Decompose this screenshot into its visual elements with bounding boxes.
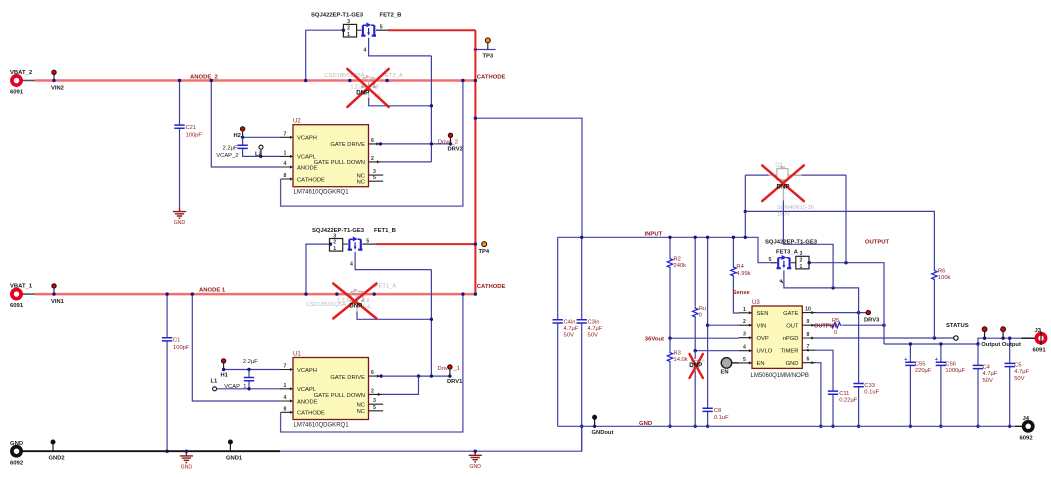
transistor FET3_A pin box [796, 256, 809, 269]
svg-text:6091: 6091 [10, 303, 24, 309]
capacitor C8 [702, 408, 712, 411]
test point DRV2 [450, 138, 452, 144]
svg-text:VIN: VIN [757, 324, 767, 330]
svg-text:5: 5 [373, 175, 376, 181]
svg-text:NC: NC [357, 173, 365, 179]
svg-text:C1: C1 [173, 338, 180, 344]
svg-text:C8: C8 [714, 408, 721, 414]
test point DRV3 [866, 310, 870, 314]
svg-text:Q1: Q1 [775, 162, 782, 168]
svg-text:6092: 6092 [1020, 436, 1034, 442]
wire VCAPH ch2 [243, 136, 280, 138]
wire GND rail left black [23, 450, 281, 452]
transistor FET3_A symbol [777, 255, 792, 268]
svg-text:ANODE 1: ANODE 1 [199, 288, 226, 294]
wire GATE PULL DOWN ch1 [382, 376, 419, 394]
wire FET3_A source to OUT [809, 263, 884, 344]
svg-text:INPUT: INPUT [645, 231, 663, 237]
svg-text:VCAPH: VCAPH [297, 135, 317, 141]
wire ANODE to pin4 U2 [211, 81, 280, 168]
svg-text:3: 3 [373, 169, 376, 175]
test point H1 [221, 359, 225, 363]
svg-text:LM74610QDGKRQ1: LM74610QDGKRQ1 [294, 190, 350, 196]
svg-text:OVP: OVP [757, 336, 769, 342]
test point L1 [213, 387, 217, 391]
svg-text:1,2,3: 1,2,3 [337, 298, 349, 304]
port J4 [1024, 422, 1033, 431]
wire UVLO [695, 350, 739, 352]
wire gates vertical ch1 [430, 270, 432, 377]
svg-text:36Vout: 36Vout [645, 337, 664, 343]
svg-text:H1: H1 [221, 373, 229, 379]
test point VIN1 [53, 288, 55, 294]
resistor R2 [669, 237, 671, 338]
wire GATE DRIVE ch2 [381, 143, 451, 145]
wire C1 branch [166, 294, 168, 451]
svg-text:_1: _1 [453, 366, 460, 372]
svg-text:L1: L1 [211, 378, 219, 384]
capacitor C56 chain [940, 344, 942, 426]
wire FET1_B gate [355, 252, 431, 270]
svg-text:5: 5 [373, 405, 376, 411]
svg-text:Sense: Sense [733, 290, 751, 296]
diode D6 (DNP) [694, 351, 696, 427]
svg-text:GATE PULL DOWN: GATE PULL DOWN [314, 160, 365, 166]
svg-text:8: 8 [807, 332, 810, 338]
svg-text:C5: C5 [1014, 363, 1021, 369]
svg-text:240k: 240k [674, 263, 687, 269]
wire nPGD STATUS [816, 337, 954, 339]
svg-text:220µF: 220µF [915, 368, 932, 374]
wire CATHODE vertical [474, 30, 476, 294]
svg-text:Driv: Driv [438, 366, 448, 372]
test point VIN2 [53, 75, 55, 81]
wire GATE pin10 [816, 312, 869, 314]
svg-text:TP4: TP4 [479, 249, 490, 255]
svg-text:OUTPUT: OUTPUT [814, 323, 838, 329]
svg-text:C56: C56 [945, 361, 956, 367]
svg-text:GATE DRIVE: GATE DRIVE [330, 142, 365, 148]
wire GND rail right [558, 425, 1015, 427]
svg-text:GNDout: GNDout [592, 430, 614, 436]
wire GATE DRIVE ch1 [381, 375, 450, 377]
ground symbol left [185, 451, 187, 456]
svg-text:8: 8 [284, 406, 287, 412]
test point L2 [260, 149, 262, 156]
svg-text:0.1uF: 0.1uF [864, 390, 879, 396]
svg-text:SUM40N10-30: SUM40N10-30 [777, 205, 814, 211]
svg-text:DRV1: DRV1 [447, 379, 463, 385]
svg-text:EN: EN [721, 369, 729, 375]
svg-text:4: 4 [284, 161, 287, 167]
svg-text:GND: GND [10, 441, 23, 447]
svg-text:SQJ422EP-T1-GE3: SQJ422EP-T1-GE3 [311, 13, 364, 19]
svg-text:2: 2 [333, 240, 336, 246]
svg-text:1: 1 [743, 307, 746, 313]
wire FET2_A gate [369, 98, 432, 106]
svg-text:3: 3 [333, 233, 336, 239]
svg-text:GND: GND [786, 361, 799, 367]
svg-text:R4: R4 [736, 264, 744, 270]
test point GND1 [229, 444, 231, 451]
test point DRV1 [449, 369, 451, 376]
transistor Q1 (DNP) [745, 174, 846, 176]
IC U1 LM74610QDGKRQ1 body [293, 358, 369, 420]
svg-text:J4: J4 [1023, 416, 1030, 422]
svg-text:DNP: DNP [349, 303, 362, 310]
svg-text:TIMER: TIMER [780, 349, 798, 355]
capacitor VCAP_2 2.2uF [243, 137, 280, 156]
svg-text:3: 3 [373, 398, 376, 404]
svg-text:L2: L2 [255, 151, 262, 157]
svg-text:0: 0 [834, 330, 837, 336]
svg-text:1: 1 [800, 264, 803, 270]
svg-text:R5: R5 [832, 318, 839, 324]
svg-text:FET2_B: FET2_B [380, 13, 402, 19]
svg-text:U3: U3 [752, 300, 760, 306]
wire ANODE_1 [35, 293, 475, 296]
svg-text:4.7µF: 4.7µF [983, 371, 998, 377]
svg-text:1000µF: 1000µF [945, 368, 965, 374]
wire Q1 gate to FET3 gate [783, 200, 833, 288]
svg-text:ANODE_2: ANODE_2 [190, 75, 219, 81]
wire 36Vout rail / OVP [670, 337, 739, 339]
wire FET2_B source to ANODE_2 [306, 30, 344, 80]
svg-text:50V: 50V [983, 378, 993, 384]
resistor R6 [933, 281, 935, 338]
wire VCAPH ch1 [224, 369, 280, 371]
svg-text:OUTPUT: OUTPUT [865, 239, 890, 245]
svg-text:+: + [935, 357, 938, 363]
wire VIN branch [707, 237, 709, 426]
capacitor C3in chain [581, 237, 583, 451]
wire GATE PULL DOWN ch2 [381, 161, 431, 163]
svg-text:SEN: SEN [757, 311, 769, 317]
capacitor C5 chain [1009, 338, 1011, 426]
test point Output 1 [984, 332, 986, 339]
svg-text:1: 1 [284, 383, 287, 389]
svg-text:FET3_A: FET3_A [776, 250, 799, 256]
wire FET2_B gate [369, 38, 432, 56]
svg-text:2: 2 [743, 319, 746, 325]
svg-text:4: 4 [350, 262, 353, 268]
svg-text:STATUS: STATUS [946, 323, 969, 329]
svg-text:R6: R6 [938, 268, 945, 274]
wire VCAPL ch1 [217, 388, 280, 390]
svg-text:6091: 6091 [10, 90, 24, 96]
svg-text:GATE DRIVE: GATE DRIVE [330, 375, 365, 381]
svg-text:4.7µF: 4.7µF [1014, 369, 1029, 375]
svg-text:VBAT_1: VBAT_1 [10, 284, 33, 290]
wire TIMER to C11 [816, 350, 834, 426]
svg-text:NC: NC [357, 179, 365, 185]
svg-text:DRV2: DRV2 [448, 147, 463, 153]
svg-text:DRV3: DRV3 [864, 317, 880, 323]
resistor Ru [694, 237, 696, 350]
svg-text:4: 4 [284, 395, 287, 401]
wire cathode to input feed [475, 118, 582, 237]
svg-text:VIN1: VIN1 [51, 299, 65, 305]
svg-text:UVLO: UVLO [757, 349, 773, 355]
svg-text:GND: GND [639, 421, 652, 427]
test point H2 [240, 127, 244, 131]
U3 pin stubs and numbers [739, 313, 752, 363]
wire ANODE_2 [35, 79, 475, 82]
IC U3 LM5060Q1MM/NOPB body [752, 306, 802, 368]
svg-text:6: 6 [807, 357, 810, 363]
wire FET1_A gate [357, 312, 431, 320]
svg-text:LM74610QDGKRQ1: LM74610QDGKRQ1 [294, 422, 350, 428]
svg-text:ANODE: ANODE [297, 400, 318, 406]
svg-text:C55: C55 [915, 361, 926, 367]
svg-text:OUT: OUT [786, 324, 799, 330]
ground for C21 [179, 208, 181, 212]
resistor R4 [733, 237, 739, 313]
wire U2 cathode loop [281, 81, 463, 207]
svg-text:C4in: C4in [564, 319, 576, 325]
svg-text:Output Output: Output Output [981, 342, 1021, 348]
svg-text:3: 3 [743, 332, 746, 338]
svg-text:ANODE: ANODE [297, 166, 318, 172]
ground symbol mid [474, 451, 476, 455]
svg-text:10: 10 [805, 307, 811, 313]
svg-text:R3: R3 [674, 350, 681, 356]
wire ANODE to pin4 U1 [192, 294, 280, 401]
svg-text:GATE PULL DOWN: GATE PULL DOWN [314, 393, 365, 399]
svg-text:H2: H2 [234, 133, 241, 139]
test point STATUS [954, 336, 958, 340]
svg-text:9: 9 [807, 319, 810, 325]
DNP mark FET1_A [333, 284, 376, 319]
wire C21 branch [179, 81, 181, 208]
svg-text:C21: C21 [186, 125, 197, 131]
capacitor C4in chain [557, 237, 559, 426]
svg-text:VBAT_2: VBAT_2 [10, 70, 33, 76]
svg-text:100k: 100k [938, 275, 951, 281]
test point EN [721, 358, 732, 369]
capacitor VCAP_1 2.2uF [248, 370, 250, 389]
svg-text:LM5060Q1MM/NOPB: LM5060Q1MM/NOPB [751, 373, 809, 379]
svg-text:FET1_A: FET1_A [375, 284, 396, 290]
svg-text:CATHODE: CATHODE [477, 284, 506, 290]
capacitor C4 chain [977, 344, 979, 426]
svg-text:0.1uF: 0.1uF [714, 415, 729, 421]
port J3 [1036, 334, 1045, 343]
svg-text:0: 0 [699, 313, 702, 319]
svg-text:0.22µF: 0.22µF [839, 398, 858, 404]
svg-text:2.2µF: 2.2µF [243, 359, 258, 365]
svg-text:CATHODE: CATHODE [297, 410, 325, 416]
svg-text:1: 1 [347, 32, 350, 38]
svg-text:4: 4 [743, 345, 746, 351]
svg-text:VCAP_2: VCAP_2 [216, 153, 238, 159]
test point GND2 [52, 444, 54, 451]
transistor FET2_A (DNP) symbol [361, 75, 376, 98]
svg-text:2: 2 [371, 156, 374, 162]
svg-text:1: 1 [284, 150, 287, 156]
svg-text:FET1_B: FET1_B [374, 228, 396, 234]
svg-text:8: 8 [284, 173, 287, 179]
svg-text:6: 6 [371, 370, 374, 376]
wire FET3_A gate [784, 270, 859, 312]
svg-text:+: + [904, 357, 907, 363]
svg-text:6091: 6091 [1033, 348, 1047, 354]
svg-text:2.2µF: 2.2µF [223, 146, 238, 152]
wire OUT pin9 with resistor R5 [816, 324, 831, 326]
wire FET1_B source to ANODE_1 [306, 244, 331, 294]
svg-text:2: 2 [371, 388, 374, 394]
wire rung to R6 [745, 211, 934, 269]
svg-text:4.7µF: 4.7µF [564, 326, 579, 332]
svg-text:CATHODE: CATHODE [477, 75, 506, 81]
svg-text:SQJ422EP-T1-GE3: SQJ422EP-T1-GE3 [312, 228, 365, 234]
transistor FET1_B symbol [348, 237, 363, 250]
test point TP4 [474, 242, 477, 245]
svg-text:GND1: GND1 [226, 456, 243, 462]
svg-text:GATE: GATE [783, 311, 798, 317]
transistor FET2_B symbol [361, 22, 376, 35]
port VBAT_1 [12, 290, 21, 299]
svg-text:C4: C4 [983, 365, 991, 371]
svg-text:U2: U2 [293, 119, 301, 125]
test point GNDout [594, 420, 596, 427]
wire INPUT rail [558, 237, 777, 262]
svg-text:VCAPH: VCAPH [297, 368, 317, 374]
svg-text:14.0k: 14.0k [674, 357, 688, 363]
svg-text:C11: C11 [839, 391, 849, 397]
svg-text:C33: C33 [864, 383, 875, 389]
svg-text:Drive_2: Drive_2 [438, 139, 458, 145]
svg-text:5: 5 [743, 357, 746, 363]
svg-text:J3: J3 [1035, 328, 1042, 334]
svg-text:GND2: GND2 [49, 456, 65, 462]
svg-text:4.99k: 4.99k [736, 271, 750, 277]
svg-text:50V: 50V [564, 333, 574, 339]
svg-text:1: 1 [333, 246, 336, 252]
transistor FET1_A (DNP) symbol [350, 288, 365, 311]
svg-text:50V: 50V [588, 333, 598, 339]
svg-text:GND: GND [174, 220, 186, 226]
svg-text:R2: R2 [674, 256, 681, 262]
svg-text:2: 2 [347, 26, 350, 32]
svg-text:C3in: C3in [588, 319, 600, 325]
wire GND pin6 [816, 363, 821, 427]
svg-text:7: 7 [284, 364, 287, 370]
U1 pin stubs and numbers [280, 370, 293, 413]
svg-text:6092: 6092 [10, 461, 24, 467]
wire output rail [884, 338, 1022, 344]
capacitor C1 [162, 338, 172, 341]
test point Output 2 [1002, 332, 1004, 339]
svg-text:NC: NC [357, 409, 365, 415]
svg-text:6: 6 [371, 138, 374, 144]
port GND [12, 447, 21, 456]
svg-text:TP3: TP3 [483, 54, 494, 60]
capacitor C55 chain [909, 344, 911, 426]
transistor FET2_B pin box [343, 24, 356, 37]
svg-text:100pF: 100pF [186, 133, 203, 139]
svg-text:nPGD: nPGD [783, 336, 799, 342]
svg-text:3: 3 [800, 251, 803, 257]
svg-text:4: 4 [364, 48, 367, 54]
svg-text:100pF: 100pF [173, 345, 190, 351]
svg-text:DNP: DNP [356, 90, 369, 97]
svg-text:3: 3 [347, 19, 350, 25]
svg-text:Ru: Ru [699, 306, 706, 312]
transistor FET1_B pin box [330, 239, 343, 252]
capacitor C11 [828, 391, 838, 394]
capacitor C21 [174, 125, 184, 128]
svg-text:4.7µF: 4.7µF [588, 326, 603, 332]
capacitor C33 chain [858, 313, 860, 427]
wire gates vertical ch2 [430, 56, 432, 162]
wire U1 cathode loop [281, 294, 463, 432]
svg-text:CATHODE: CATHODE [297, 177, 325, 183]
svg-text:GND: GND [469, 464, 481, 470]
port VBAT_2 [12, 76, 21, 85]
svg-text:EN: EN [757, 361, 765, 367]
svg-text:GND: GND [181, 465, 193, 471]
svg-text:VIN2: VIN2 [51, 86, 64, 92]
DNP mark FET2_A [347, 69, 388, 107]
svg-text:2: 2 [800, 257, 803, 263]
test point TP3 [475, 49, 495, 51]
resistor R3 [669, 338, 671, 426]
wire VIN to pin2 [708, 324, 739, 326]
svg-text:7: 7 [284, 131, 287, 137]
IC U2 LM74610QDGKRQ1 body [293, 125, 369, 187]
svg-text:DNP: DNP [689, 362, 702, 369]
wire GND rail left blue [280, 426, 582, 451]
svg-text:DNP: DNP [777, 183, 790, 190]
svg-text:NC: NC [357, 402, 365, 408]
svg-text:50V: 50V [1014, 376, 1024, 382]
svg-text:U1: U1 [293, 351, 301, 357]
U2 pin stubs and numbers [280, 137, 293, 179]
